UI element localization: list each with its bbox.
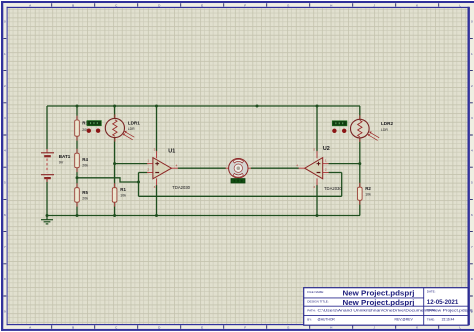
photoresistor LDR1 — [105, 114, 140, 141]
svg-text:REV:@REV: REV:@REV — [395, 317, 414, 321]
wire U1 -input drop — [138, 173, 140, 197]
display motor value box — [231, 179, 245, 183]
photoresistor LDR2 — [351, 115, 394, 142]
wire LDR2 top — [359, 106, 361, 120]
wire R1 bottom — [114, 202, 116, 215]
svg-text:5: 5 — [154, 147, 156, 151]
wire R3 top — [76, 106, 78, 120]
svg-text:F: F — [244, 325, 246, 329]
svg-text:2: 2 — [147, 168, 149, 172]
svg-text:H: H — [330, 325, 332, 329]
svg-text:L: L — [459, 3, 461, 7]
wire battery to ground rail — [46, 179, 48, 216]
svg-text:2: 2 — [471, 84, 473, 88]
svg-text:E: E — [201, 325, 203, 329]
svg-text:8: 8 — [4, 277, 6, 281]
svg-text:LDR: LDR — [381, 128, 388, 132]
svg-text:8: 8 — [471, 277, 473, 281]
wire to U1 -input — [139, 172, 148, 174]
junction R3 top rail — [76, 105, 79, 108]
wire to U1 +input — [115, 163, 148, 165]
svg-text:9V: 9V — [59, 161, 64, 165]
junction U1 supply ground — [155, 214, 158, 217]
wire battery top — [46, 106, 48, 150]
svg-text:4: 4 — [176, 163, 178, 167]
node B LDR2-R2 — [358, 162, 361, 165]
svg-text:R1: R1 — [120, 187, 126, 192]
svg-text:C:\Users\Anand Unnikrishnan\On: C:\Users\Anand Unnikrishnan\OneDrive\Doc… — [318, 309, 473, 313]
resistor R4 — [75, 149, 89, 172]
svg-text:TIME:: TIME: — [427, 317, 435, 321]
svg-text:10k: 10k — [365, 192, 371, 196]
svg-text:3: 3 — [154, 185, 156, 189]
svg-text:1: 1 — [147, 159, 149, 163]
svg-text:5: 5 — [313, 147, 315, 151]
display LDR2 value box — [332, 121, 347, 126]
junction R1 ground — [113, 214, 116, 217]
wire divider reference — [77, 178, 139, 182]
svg-text:7: 7 — [471, 245, 473, 249]
svg-text:0: 0 — [4, 20, 6, 24]
wire U2 -input drop — [341, 173, 343, 197]
svg-text:New Project.pdsprj: New Project.pdsprj — [343, 300, 415, 307]
junction top rail — [256, 105, 259, 108]
svg-text:DATE:: DATE: — [427, 289, 436, 293]
title block — [304, 288, 473, 326]
svg-text:9: 9 — [4, 309, 6, 313]
svg-text:U2: U2 — [323, 146, 330, 152]
svg-text:2: 2 — [325, 168, 327, 172]
resistor R3 — [75, 116, 89, 141]
ground — [41, 216, 53, 224]
svg-text:3: 3 — [313, 185, 315, 189]
button R3 dot left — [87, 129, 91, 133]
svg-text:E: E — [201, 3, 203, 7]
svg-text:FILE NAME:: FILE NAME: — [307, 290, 324, 294]
wire U2 V+ supply — [316, 106, 318, 151]
wire minus-input bus — [139, 195, 342, 197]
svg-text:LDR1: LDR1 — [128, 121, 140, 126]
svg-text:6: 6 — [471, 213, 473, 217]
wire motor to U2 output — [251, 167, 299, 169]
svg-text:TDA2030: TDA2030 — [324, 186, 342, 191]
svg-text:R2: R2 — [365, 186, 371, 191]
button LDR2 dot left — [332, 129, 336, 133]
svg-text:BAT1: BAT1 — [59, 154, 71, 159]
wire to U2 +input — [329, 163, 360, 165]
svg-text:6: 6 — [4, 213, 6, 217]
svg-text:TDA2030: TDA2030 — [172, 185, 190, 190]
svg-text:R4: R4 — [82, 157, 88, 162]
svg-text:1: 1 — [471, 52, 473, 56]
junction U2 supply rail — [316, 105, 319, 108]
wire LDR1 top — [114, 106, 116, 119]
svg-text:5: 5 — [471, 181, 473, 185]
resistor R1 — [112, 183, 126, 206]
svg-text:BY:: BY: — [307, 317, 312, 321]
op-amp U1 — [147, 147, 191, 189]
resistor R2 — [358, 183, 372, 205]
svg-text:New Project.pdsprj: New Project.pdsprj — [343, 290, 415, 297]
svg-text:2: 2 — [4, 84, 6, 88]
svg-text:5: 5 — [4, 181, 6, 185]
svg-text:4: 4 — [4, 148, 6, 152]
svg-text:1: 1 — [325, 159, 327, 163]
display R3 value box — [87, 121, 101, 126]
junction LDR1 top rail — [113, 105, 116, 108]
svg-text:0: 0 — [471, 20, 473, 24]
svg-text:3: 3 — [4, 116, 6, 120]
wire U1 output to motor — [178, 167, 226, 169]
svg-text:20k: 20k — [82, 163, 88, 167]
wire to U2 -input — [329, 172, 342, 174]
button R3 dot right — [96, 129, 100, 133]
svg-text:10k: 10k — [120, 194, 126, 198]
svg-text:PAGE:: PAGE: — [427, 308, 436, 312]
op-amp U2 — [296, 146, 342, 191]
svg-text:7: 7 — [4, 245, 6, 249]
svg-text:U1: U1 — [168, 148, 175, 154]
svg-text:12-05-2021: 12-05-2021 — [427, 299, 459, 306]
junction U1 supply rail — [155, 105, 158, 108]
svg-text:15:16:44: 15:16:44 — [442, 317, 455, 321]
wire R3-R4 — [76, 136, 78, 153]
wire LDR1 to R1 — [114, 137, 116, 187]
svg-text:1: 1 — [4, 52, 6, 56]
svg-text:4: 4 — [471, 148, 473, 152]
wire R5 bottom — [76, 202, 78, 215]
svg-text:LDR2: LDR2 — [381, 121, 393, 126]
svg-text:B: B — [72, 3, 74, 7]
svg-text:DESIGN TITLE:: DESIGN TITLE: — [307, 299, 328, 303]
svg-text:R5: R5 — [82, 190, 88, 195]
motor M1 — [226, 159, 251, 178]
node divider R4-R5 — [76, 176, 79, 179]
wire bottom ground rail — [47, 215, 360, 217]
svg-text:L: L — [459, 325, 461, 329]
wire U1 V- supply — [156, 185, 158, 216]
svg-text:@AUTHOR: @AUTHOR — [318, 317, 336, 321]
svg-text:4: 4 — [296, 163, 298, 167]
svg-text:PATH:: PATH: — [307, 308, 316, 312]
wire R2 bottom — [359, 200, 361, 215]
junction battery ground — [46, 214, 49, 217]
junction R5 ground — [76, 214, 79, 217]
wire LDR2 to R2 — [359, 138, 361, 188]
wire top power rail — [47, 105, 360, 107]
battery BAT1 — [41, 149, 54, 182]
svg-text:20k: 20k — [82, 197, 88, 201]
svg-text:H: H — [330, 3, 332, 7]
junction U2 supply ground — [316, 214, 319, 217]
resistor R5 — [75, 183, 89, 206]
wire U2 V- supply — [316, 185, 318, 216]
svg-text:3: 3 — [471, 116, 473, 120]
svg-text:B: B — [72, 325, 74, 329]
svg-text:F: F — [244, 3, 246, 7]
wire U1 V+ supply — [156, 106, 158, 151]
junction reference bus — [137, 181, 140, 184]
button LDR2 dot right — [342, 129, 346, 133]
wire R4-R5 — [76, 168, 78, 188]
svg-text:LDR: LDR — [128, 127, 135, 131]
node A LDR1-R1 — [113, 162, 116, 165]
